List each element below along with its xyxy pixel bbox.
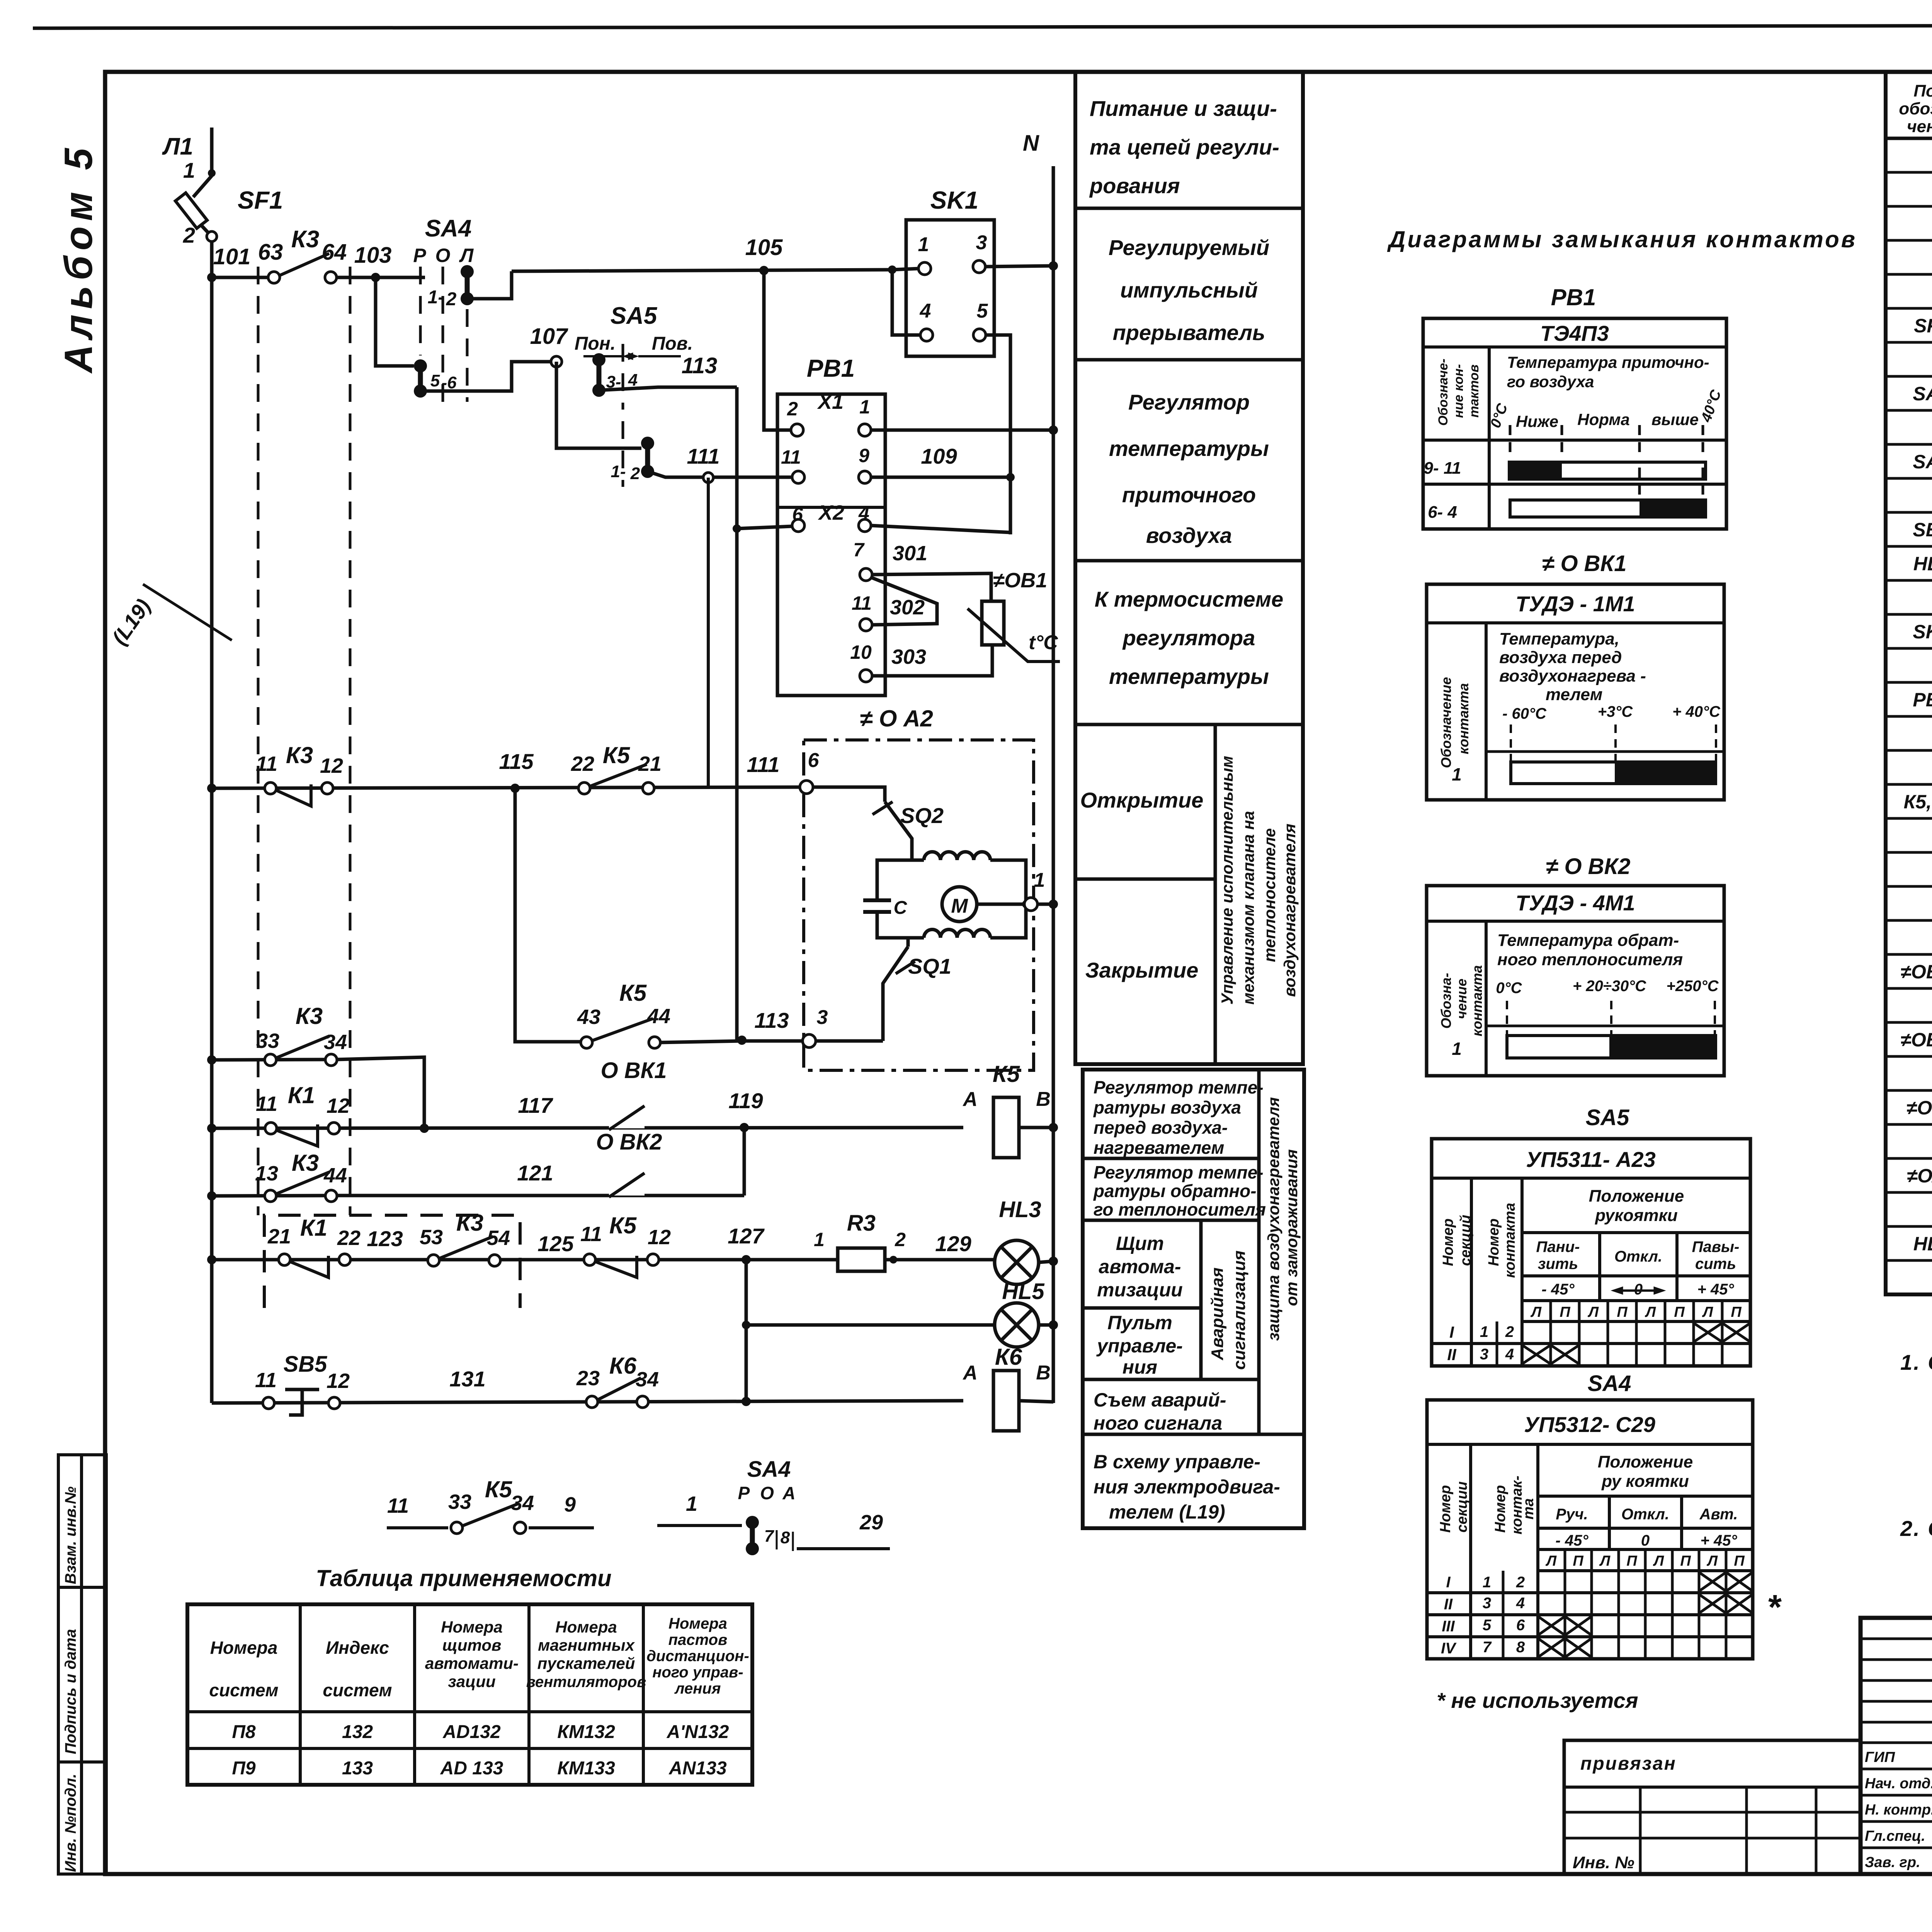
- svg-text:SK1: SK1: [930, 186, 979, 214]
- A2 pin 6: [800, 781, 813, 794]
- svg-text:УП5312- С29: УП5312- С29: [1524, 1412, 1655, 1437]
- svg-text:≠ОА2: ≠ОА2: [1907, 1165, 1932, 1187]
- svg-text:систем: систем: [323, 1680, 392, 1700]
- annotation cell power: [1075, 207, 1303, 210]
- svg-text:SВ5: SВ5: [1913, 519, 1932, 541]
- svg-text:+ 40°С: + 40°С: [1672, 703, 1721, 720]
- svg-text:*: *: [1767, 1588, 1782, 1627]
- svg-text:≠ О А2: ≠ О А2: [860, 706, 933, 731]
- svg-text:11: 11: [256, 752, 277, 776]
- svg-text:Руч.: Руч.: [1556, 1506, 1588, 1523]
- svg-text:РВ1: РВ1: [807, 354, 855, 382]
- svg-text:SA4: SA4: [425, 215, 472, 242]
- svg-text:В: В: [1036, 1362, 1051, 1384]
- svg-text:II: II: [1447, 1345, 1457, 1364]
- svg-text:Откл.: Откл.: [1614, 1248, 1662, 1265]
- node 2: [207, 231, 217, 241]
- svg-text:29: 29: [859, 1511, 883, 1534]
- svg-text:109: 109: [921, 444, 957, 468]
- svg-text:1-: 1-: [611, 462, 626, 481]
- svg-text:SВ5: SВ5: [284, 1352, 328, 1377]
- svg-text:К термосистеме: К термосистеме: [1095, 587, 1284, 611]
- svg-text:ГИП: ГИП: [1865, 1749, 1895, 1765]
- svg-text:воздуха: воздуха: [1146, 523, 1232, 548]
- SA5 contact 1-2: [622, 421, 624, 487]
- svg-text:телем (L19): телем (L19): [1109, 1501, 1225, 1523]
- svg-text:Температура,: Температура,: [1499, 629, 1619, 648]
- svg-text:Л: Л: [1706, 1553, 1718, 1569]
- wire HL3 to N bus: [1039, 1261, 1053, 1262]
- parts list table: [1886, 72, 1932, 1294]
- title block: [1861, 1618, 1932, 1874]
- svg-text:Павы-: Павы-: [1692, 1238, 1740, 1255]
- svg-text:ТУДЭ - 1М1: ТУДЭ - 1М1: [1515, 592, 1635, 616]
- svg-text:контакта: контакта: [1502, 1203, 1518, 1278]
- svg-text:Н. контр.: Н. контр.: [1865, 1802, 1932, 1818]
- wire to SK1 pin 1: [892, 269, 919, 270]
- SA4 contact 1-2: [461, 265, 474, 278]
- svg-text:107: 107: [530, 324, 569, 349]
- svg-text:t°С: t°С: [1029, 631, 1058, 654]
- svg-text:Обозна-: Обозна-: [1438, 973, 1454, 1029]
- svg-text:Регулируемый: Регулируемый: [1109, 235, 1269, 260]
- svg-text:КМ133: КМ133: [557, 1758, 615, 1779]
- svg-text:П: П: [1734, 1553, 1745, 1569]
- svg-text:П: П: [1674, 1304, 1685, 1320]
- node 115: [510, 784, 520, 793]
- svg-text:Л: Л: [459, 245, 474, 266]
- svg-text:КМ132: КМ132: [557, 1722, 615, 1742]
- svg-text:9: 9: [859, 445, 869, 466]
- svg-text:R3: R3: [847, 1211, 876, 1236]
- svg-text:К6: К6: [609, 1353, 637, 1379]
- limit switch SQ2: [813, 787, 885, 802]
- svg-text:ления: ления: [674, 1680, 721, 1697]
- node 119: [740, 1123, 749, 1132]
- svg-text:пастов: пастов: [668, 1631, 728, 1648]
- svg-text:4: 4: [1505, 1346, 1514, 1363]
- wire 119 down to 121: [743, 1128, 746, 1196]
- svg-text:11: 11: [781, 446, 801, 468]
- winding connections to pin 1: [990, 860, 1026, 904]
- svg-text:302: 302: [890, 596, 925, 619]
- A2 pin 3: [803, 1034, 816, 1048]
- svg-text:К5: К5: [619, 980, 647, 1006]
- svg-text:63: 63: [258, 240, 283, 265]
- svg-text:контакта: контакта: [1469, 965, 1485, 1036]
- thermal contact BK2: [609, 1124, 645, 1128]
- svg-text:Открытие: Открытие: [1080, 788, 1204, 812]
- svg-text:53: 53: [420, 1226, 443, 1249]
- svg-text:SA4: SA4: [1913, 383, 1932, 405]
- svg-text:Зав. гр.: Зав. гр.: [1865, 1854, 1920, 1871]
- svg-text:П: П: [1680, 1553, 1691, 1569]
- wire PB1 pin1 to N bus: [871, 429, 1053, 432]
- svg-text:П: П: [1731, 1304, 1742, 1320]
- svg-text:44: 44: [647, 1005, 670, 1028]
- svg-text:ния электродвига-: ния электродвига-: [1094, 1476, 1280, 1498]
- svg-text:1: 1: [1034, 869, 1045, 891]
- svg-text:го теплоносителя: го теплоносителя: [1094, 1199, 1266, 1219]
- svg-text:Номер: Номер: [1492, 1485, 1509, 1532]
- svg-text:HL3: HL3: [1913, 553, 1932, 575]
- annotation cell supply-air regulator: [1075, 559, 1303, 563]
- svg-text:Л: Л: [1587, 1304, 1599, 1320]
- svg-text:АD 133: АD 133: [440, 1758, 503, 1779]
- svg-text:ру коятки: ру коятки: [1601, 1472, 1689, 1491]
- svg-text:11: 11: [852, 592, 872, 614]
- PB1 pin 6: [792, 519, 804, 532]
- phase terminal L1: [210, 128, 214, 176]
- wire 301: [872, 573, 991, 601]
- svg-text:12: 12: [327, 1094, 350, 1117]
- contact K1 21-22: [279, 1254, 290, 1265]
- svg-text:воздухонагрева -: воздухонагрева -: [1499, 667, 1646, 685]
- svg-text:Управление исполнительным: Управление исполнительным: [1218, 756, 1236, 1005]
- svg-text:Номер: Номер: [1486, 1218, 1502, 1266]
- svg-text:7: 7: [853, 539, 865, 561]
- svg-text:ТЭ4П3: ТЭ4П3: [1540, 321, 1609, 345]
- svg-text:та: та: [1520, 1498, 1537, 1520]
- svg-text:Ниже: Ниже: [1516, 412, 1558, 430]
- svg-text:6- 4: 6- 4: [1428, 503, 1457, 522]
- PB1 connector divider: [777, 506, 885, 509]
- svg-text:Подпись и дата: Подпись и дата: [62, 1629, 79, 1754]
- wire PB1 pin6 to net 113: [737, 526, 792, 529]
- svg-text:П: П: [1617, 1304, 1628, 1320]
- svg-text:113: 113: [754, 1008, 789, 1032]
- contact K6 23-34: [586, 1396, 598, 1408]
- svg-text:101: 101: [213, 244, 251, 269]
- A2 pin 1: [1024, 898, 1037, 911]
- svg-text:3: 3: [1483, 1595, 1491, 1612]
- svg-text:ратуры воздуха: ратуры воздуха: [1093, 1097, 1241, 1117]
- SA4 contact 5-6: [414, 359, 427, 372]
- svg-text:34: 34: [636, 1368, 659, 1391]
- junction at 127 branch: [742, 1397, 751, 1406]
- svg-text:воздуха перед: воздуха перед: [1499, 648, 1622, 667]
- svg-text:103: 103: [354, 243, 392, 268]
- svg-text:Диаграммы замыкания контакто: Диаграммы замыкания контактов: [1387, 226, 1857, 252]
- svg-text:импульсный: импульсный: [1120, 278, 1258, 302]
- wire K6 coil to N bus: [1019, 1401, 1053, 1402]
- svg-text:рукоятки: рукоятки: [1595, 1206, 1678, 1225]
- svg-text:23: 23: [576, 1367, 600, 1390]
- svg-text:Норма: Норма: [1577, 410, 1630, 429]
- svg-text:чение: чение: [1454, 979, 1469, 1019]
- svg-text:ного сигнала: ного сигнала: [1094, 1412, 1222, 1434]
- row wire K3 33-34: [207, 1055, 216, 1065]
- svg-text:нагревателем: нагревателем: [1094, 1138, 1224, 1158]
- svg-text:Питание и защи-: Питание и защи-: [1090, 96, 1277, 121]
- wire 101: [207, 273, 216, 282]
- svg-text:Л1: Л1: [162, 133, 193, 160]
- svg-text:- 45°: - 45°: [1542, 1281, 1575, 1298]
- svg-text:тизации: тизации: [1097, 1279, 1183, 1301]
- svg-text:SQ2: SQ2: [900, 803, 944, 828]
- svg-text:Пов.: Пов.: [652, 333, 693, 354]
- svg-text:2: 2: [183, 223, 195, 247]
- svg-text:1: 1: [183, 158, 195, 182]
- console boundary dashed box: [264, 1215, 520, 1308]
- svg-text:8: 8: [781, 1528, 790, 1547]
- svg-text:перед воздуха-: перед воздуха-: [1094, 1117, 1228, 1138]
- svg-text:43: 43: [577, 1005, 600, 1029]
- svg-text:0°С: 0°С: [1496, 980, 1522, 997]
- svg-text:контакта: контакта: [1456, 683, 1471, 754]
- svg-text:IV: IV: [1441, 1640, 1457, 1657]
- wire 105 main line: [512, 270, 892, 271]
- svg-text:1: 1: [918, 233, 929, 256]
- svg-text:129: 129: [935, 1231, 971, 1256]
- svg-text:обозна-: обозна-: [1899, 99, 1932, 118]
- wire 113 vertical: [735, 387, 739, 1039]
- svg-text:Температура приточно-: Температура приточно-: [1507, 353, 1709, 371]
- row wire K3 11-12 to A2 pin 6: [207, 784, 216, 793]
- svg-text:Пон.: Пон.: [575, 333, 616, 354]
- svg-text:Инв. №: Инв. №: [1573, 1853, 1634, 1872]
- svg-text:SA4: SA4: [747, 1457, 791, 1482]
- svg-text:Щит: Щит: [1116, 1233, 1164, 1254]
- svg-text:секции: секции: [1454, 1481, 1470, 1533]
- svg-text:тактов: тактов: [1467, 364, 1481, 417]
- svg-text:54: 54: [487, 1226, 510, 1250]
- svg-text:44: 44: [323, 1164, 347, 1187]
- annotation cell opening: [1075, 878, 1215, 881]
- svg-text:ного управ-: ного управ-: [652, 1664, 743, 1681]
- wire 105 branch to SK1 pin 4: [892, 270, 921, 335]
- svg-text:+ 20÷30°С: + 20÷30°С: [1573, 978, 1646, 995]
- attachment box: [1564, 1740, 1861, 1874]
- wire node113 to A2 pin3: [742, 1039, 803, 1043]
- cabinet boundary dashed line right: [349, 267, 352, 1215]
- node 107: [551, 356, 562, 367]
- svg-text:≠ О ВК2: ≠ О ВК2: [1546, 854, 1631, 879]
- svg-text:105: 105: [745, 235, 783, 260]
- svg-text:1: 1: [1480, 1323, 1488, 1340]
- svg-text:вентиляторов: вентиляторов: [526, 1673, 646, 1690]
- svg-text:АD132: АD132: [442, 1722, 501, 1742]
- svg-text:2. Схема управления прит: 2. Схема управления приточными системами…: [1900, 1516, 1932, 1541]
- svg-text:Л: Л: [1545, 1553, 1557, 1569]
- svg-text:Регулятор темпе-: Регулятор темпе-: [1094, 1162, 1264, 1182]
- svg-text:1: 1: [1452, 1039, 1462, 1059]
- svg-text:7: 7: [1483, 1639, 1492, 1656]
- svg-text:X1: X1: [817, 390, 844, 413]
- svg-text:Аварийная: Аварийная: [1208, 1267, 1227, 1361]
- svg-text:10: 10: [850, 641, 872, 663]
- contact K3 11-12: [265, 782, 276, 794]
- svg-text:Положение: Положение: [1598, 1452, 1693, 1471]
- wire SK1 pin 5 down: [986, 335, 1010, 534]
- svg-text:0: 0: [1641, 1532, 1650, 1549]
- svg-text:SA5: SA5: [1913, 451, 1932, 473]
- svg-text:П8: П8: [232, 1722, 256, 1742]
- svg-text:ратуры обратно-: ратуры обратно-: [1093, 1181, 1257, 1201]
- wire 303: [872, 645, 992, 676]
- svg-text:111: 111: [747, 752, 779, 777]
- svg-text:SA5: SA5: [1586, 1105, 1630, 1130]
- svg-text:≠ОВ1: ≠ОВ1: [993, 569, 1048, 592]
- svg-text:6: 6: [808, 749, 820, 772]
- svg-text:ние кон-: ние кон-: [1451, 364, 1466, 418]
- svg-text:1: 1: [1452, 764, 1462, 784]
- svg-text:2: 2: [1516, 1574, 1525, 1591]
- PB1 pin 2: [791, 424, 803, 436]
- svg-text:пускателей: пускателей: [537, 1654, 635, 1672]
- node 105 junction to PB1: [759, 266, 769, 275]
- svg-text:113: 113: [682, 353, 717, 378]
- svg-text:В: В: [1036, 1088, 1051, 1111]
- row wire K1 11-12: [207, 1124, 216, 1133]
- svg-text:2: 2: [630, 464, 640, 483]
- svg-text:I: I: [1449, 1323, 1454, 1341]
- svg-text:HL3: HL3: [999, 1197, 1041, 1222]
- svg-text:5: 5: [977, 300, 988, 322]
- left strip boxes: [58, 1455, 106, 1874]
- svg-text:117: 117: [518, 1093, 553, 1117]
- wire SA4 5-6 to node 107: [420, 362, 551, 391]
- applicability table: [187, 1604, 752, 1785]
- svg-text:X2: X2: [818, 501, 844, 524]
- node 103: [371, 273, 380, 282]
- svg-text:Обозначение: Обозначение: [1438, 677, 1454, 768]
- svg-text:Регулятор: Регулятор: [1128, 390, 1250, 414]
- svg-text:1: 1: [814, 1229, 825, 1250]
- svg-text:33: 33: [448, 1490, 471, 1514]
- svg-text:64: 64: [322, 240, 347, 265]
- svg-text:Авт.: Авт.: [1699, 1506, 1738, 1523]
- svg-text:сигнализация: сигнализация: [1230, 1250, 1249, 1370]
- relay contact K3 63-64: [268, 272, 280, 283]
- svg-text:телем: телем: [1546, 685, 1602, 704]
- svg-text:температуры: температуры: [1109, 436, 1269, 461]
- svg-text:303: 303: [891, 645, 926, 668]
- svg-text:Таблица применяемости: Таблица применяемости: [316, 1565, 611, 1591]
- svg-text:К5: К5: [485, 1476, 513, 1502]
- svg-text:Положение: Положение: [1589, 1187, 1684, 1206]
- svg-text:123: 123: [367, 1226, 403, 1251]
- page top edge line: [33, 25, 1932, 28]
- svg-text:Пульт: Пульт: [1107, 1312, 1172, 1333]
- svg-text:33: 33: [256, 1029, 279, 1053]
- svg-text:12: 12: [320, 754, 343, 777]
- svg-text:защита воздухонагревателя: защита воздухонагревателя: [1264, 1097, 1282, 1341]
- thermal contact on 121: [609, 1191, 645, 1196]
- svg-text:А: А: [782, 1483, 795, 1503]
- svg-text:С: С: [894, 898, 908, 918]
- svg-text:сить: сить: [1695, 1255, 1736, 1272]
- wire 105 to PB1 pin 2: [764, 270, 793, 430]
- row wire SB5 to K6: [212, 1401, 963, 1403]
- svg-text:А: А: [962, 1088, 978, 1111]
- svg-text:111: 111: [687, 444, 719, 468]
- svg-text:SK1: SK1: [1913, 621, 1932, 643]
- node 111 junction: [703, 473, 713, 483]
- svg-text:121: 121: [517, 1161, 553, 1185]
- svg-text:регулятора: регулятора: [1122, 626, 1255, 650]
- svg-text:III: III: [1442, 1618, 1455, 1635]
- svg-text:УП5311- А23: УП5311- А23: [1526, 1147, 1656, 1172]
- svg-text:Инв. №подл.: Инв. №подл.: [62, 1774, 79, 1872]
- svg-text:I: I: [1446, 1574, 1451, 1591]
- svg-text:4: 4: [920, 300, 931, 322]
- svg-text:Номер: Номер: [1437, 1485, 1454, 1532]
- svg-text:К1: К1: [288, 1082, 315, 1108]
- svg-text:автомати-: автомати-: [425, 1654, 519, 1672]
- svg-text:11: 11: [255, 1369, 277, 1392]
- contact K1 11-12: [265, 1122, 277, 1134]
- limit switch SQ1: [908, 938, 924, 947]
- svg-text:4: 4: [1516, 1595, 1525, 1612]
- svg-text:22: 22: [571, 752, 594, 776]
- svg-text:А: А: [962, 1362, 978, 1384]
- svg-text:9: 9: [564, 1493, 576, 1516]
- svg-text:SA4: SA4: [1588, 1371, 1631, 1396]
- svg-text:115: 115: [499, 749, 534, 774]
- svg-text:- 60°С: - 60°С: [1502, 705, 1547, 722]
- svg-text:125: 125: [537, 1231, 574, 1256]
- wire 121: [336, 1194, 744, 1197]
- svg-text:П: П: [1560, 1304, 1570, 1320]
- svg-text:2: 2: [895, 1229, 906, 1250]
- wire A2 pin1 to N bus: [1037, 903, 1053, 906]
- svg-text:зить: зить: [1538, 1255, 1578, 1272]
- svg-text:А'N132: А'N132: [667, 1722, 729, 1742]
- contact K5 22-21: [578, 782, 590, 794]
- svg-text:Л: Л: [1653, 1553, 1664, 1569]
- svg-text:рования: рования: [1089, 173, 1180, 198]
- svg-text:1: 1: [1483, 1574, 1491, 1591]
- svg-text:132: 132: [342, 1722, 373, 1742]
- annotation column frame top: [1075, 72, 1303, 1064]
- svg-text:РВ1: РВ1: [1913, 689, 1932, 711]
- svg-text:8: 8: [1516, 1639, 1525, 1656]
- svg-text:систем: систем: [209, 1680, 278, 1700]
- svg-text:ного теплоносителя: ного теплоносителя: [1497, 950, 1683, 969]
- svg-text:К3: К3: [291, 226, 320, 253]
- svg-text:≠ О ВК1: ≠ О ВК1: [1542, 551, 1627, 576]
- contact K5 43-44: [581, 1037, 592, 1048]
- svg-text:II: II: [1444, 1596, 1453, 1613]
- svg-text:1: 1: [686, 1492, 697, 1515]
- svg-text:дистанцион-: дистанцион-: [646, 1648, 749, 1665]
- wire 111 from SA5 to PB1 pin 11: [648, 471, 793, 477]
- svg-text:34: 34: [511, 1492, 534, 1515]
- svg-text:автома-: автома-: [1099, 1256, 1181, 1277]
- row wire K1 21-22 to HL3: [207, 1255, 216, 1264]
- wire node 107 to SA5 1-2: [556, 362, 641, 448]
- svg-text:301: 301: [893, 542, 927, 565]
- svg-text:Закрытие: Закрытие: [1085, 958, 1199, 982]
- svg-text:М: М: [951, 895, 968, 917]
- svg-text:О: О: [760, 1483, 774, 1503]
- svg-text:Р: Р: [413, 245, 426, 266]
- junction 33-34 branch: [420, 1124, 429, 1133]
- svg-text:О ВК1: О ВК1: [600, 1058, 667, 1083]
- svg-text:11: 11: [580, 1223, 602, 1246]
- svg-text:та цепей регули-: та цепей регули-: [1090, 135, 1279, 159]
- svg-text:Номера: Номера: [668, 1615, 727, 1632]
- svg-text:секций: секций: [1458, 1215, 1474, 1266]
- svg-text:133: 133: [342, 1758, 373, 1779]
- svg-text:К5: К5: [609, 1213, 637, 1238]
- svg-text:12: 12: [327, 1369, 350, 1393]
- svg-text:Номер: Номер: [1440, 1218, 1456, 1266]
- svg-text:5: 5: [430, 371, 440, 390]
- svg-text:≠ОВК1: ≠ОВК1: [1901, 961, 1932, 983]
- wire node115 down to contact K5 43-44: [515, 788, 581, 1042]
